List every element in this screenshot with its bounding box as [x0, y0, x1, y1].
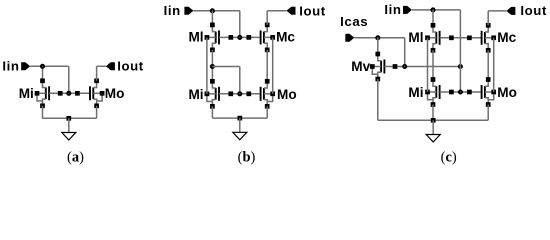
- svg-text:(a): (a): [67, 150, 84, 166]
- wire Icas down to Mv gate (c): [404, 38, 406, 67]
- wire Iout top (b): [267, 10, 286, 12]
- input flag Icas (c): [345, 34, 354, 42]
- svg-text:Mo: Mo: [497, 85, 517, 100]
- wire Mi source (a): [42, 106, 44, 119]
- wire Iin top (b): [193, 10, 239, 12]
- wire Iin to bottom gates (c): [459, 10, 461, 92]
- wire bulk tie Ml-Mi (b): [206, 37, 208, 93]
- input flag Iin (b): [184, 7, 193, 15]
- output flag Iout (a): [106, 62, 115, 70]
- ground (a): [62, 118, 76, 140]
- svg-text:Mo: Mo: [105, 86, 125, 101]
- wire cascode node to bottom gates (b): [212, 66, 239, 68]
- wire Mv gate row (c): [384, 66, 460, 68]
- junction Icas/Mv drain (c): [376, 36, 379, 39]
- input flag Iin (c): [403, 6, 412, 14]
- transistor Mo (a): [90, 78, 104, 108]
- transistor Mi (b): [205, 79, 219, 109]
- wire ground rail (a): [43, 117, 97, 119]
- wire Mi source (b): [211, 106, 213, 118]
- gate terminal Mo (b): [246, 91, 251, 96]
- gate terminal Mo (a): [75, 91, 80, 96]
- junction ground rail (b): [237, 116, 242, 121]
- wire Mi source (c): [432, 105, 434, 121]
- wire top gate row (b): [219, 36, 261, 38]
- junction Iin/Ml drain (c): [431, 8, 434, 11]
- wire Ml source to Mi drain (c): [432, 50, 434, 79]
- wire Mc source to Mo drain (b): [266, 50, 268, 81]
- junction bottom gate node (c): [459, 90, 462, 93]
- junction Mv gate to Iin column (c): [459, 65, 462, 68]
- wire Mc drain (c): [487, 11, 489, 25]
- svg-text:Iin: Iin: [2, 59, 19, 74]
- wire bottom gate row (b): [219, 93, 261, 95]
- junction Iin/Ml drain (b): [211, 9, 214, 12]
- wire Ml drain (b): [211, 11, 213, 25]
- svg-text:Iin: Iin: [384, 2, 401, 17]
- junction gate node (a): [67, 92, 70, 95]
- svg-text:Mi: Mi: [188, 87, 203, 102]
- svg-text:Iout: Iout: [299, 3, 326, 18]
- ground (c): [426, 120, 440, 142]
- transistor Mo (c): [482, 77, 496, 107]
- wire Ml source to Mi drain (b): [211, 50, 213, 81]
- wire Mo source (a): [96, 106, 98, 119]
- gate terminal Mc (b): [246, 35, 251, 40]
- wire gate row (a): [49, 92, 90, 94]
- svg-text:Mc: Mc: [276, 30, 295, 45]
- input flag Iin (a): [21, 62, 30, 70]
- wire diode connection (a): [68, 66, 70, 93]
- wire ground rail (c): [378, 119, 488, 121]
- wire bulk tie Mc-Mo (c): [493, 38, 495, 92]
- transistor Ml (b): [205, 23, 219, 53]
- junction top gate node (b): [238, 36, 241, 39]
- svg-text:Icas: Icas: [340, 14, 368, 29]
- gate terminal Mi (c): [449, 90, 454, 95]
- wire Mo source (b): [266, 106, 268, 118]
- gate terminal Mc (c): [467, 35, 472, 40]
- wire Iout top (c): [488, 10, 506, 12]
- junction node Iin/Mi drain (a): [41, 65, 44, 68]
- gate terminal Ml (c): [449, 35, 454, 40]
- transistor Mo (b): [261, 79, 275, 109]
- junction bottom gate node (b): [238, 92, 241, 95]
- svg-text:Mc: Mc: [497, 30, 516, 45]
- junction cascode node (b): [211, 65, 214, 68]
- wire bulk tie Ml-Mi (c): [427, 38, 429, 92]
- wire down to bottom gate row (b): [239, 67, 241, 94]
- svg-text:Mv: Mv: [351, 59, 370, 74]
- wire Mi drain (a): [42, 66, 44, 81]
- gate terminal Mv (c): [393, 64, 398, 69]
- transistor Mv (c): [370, 52, 384, 82]
- svg-text:Ml: Ml: [408, 30, 423, 45]
- wire Mc source to Mo drain (c): [487, 50, 489, 79]
- wire Mo source (c): [487, 105, 489, 121]
- wire Ml drain (c): [432, 10, 434, 25]
- svg-text:(b): (b): [238, 150, 256, 166]
- svg-text:(c): (c): [441, 150, 457, 166]
- gate terminal Mi (b): [228, 91, 233, 96]
- wire bulk tie Mc-Mo (b): [272, 37, 274, 93]
- transistor Mc (c): [482, 23, 496, 53]
- gate terminal Mo (c): [467, 90, 472, 95]
- junction Mv gate/Icas (c): [403, 65, 406, 68]
- svg-text:Ml: Ml: [188, 30, 203, 45]
- wire Iout top (a): [97, 65, 106, 67]
- svg-text:Iout: Iout: [520, 3, 547, 18]
- svg-text:Mi: Mi: [19, 86, 34, 101]
- transistor Mc (b): [261, 23, 275, 53]
- junction ground rail (a): [66, 116, 71, 121]
- wire Iin top (c): [412, 9, 460, 11]
- svg-text:Mi: Mi: [408, 85, 423, 100]
- wire Mv drain (c): [377, 38, 379, 54]
- wire top gate row (c): [440, 37, 482, 39]
- gate terminal Mi (a): [58, 91, 63, 96]
- gate terminal Ml (b): [228, 35, 233, 40]
- output flag Iout (b): [287, 7, 296, 15]
- svg-text:Iin: Iin: [164, 3, 181, 18]
- wire ground rail (b): [212, 117, 267, 119]
- wire Icas (c): [354, 37, 404, 39]
- svg-text:Mo: Mo: [277, 87, 297, 102]
- wire Mc drain (b): [266, 11, 268, 25]
- wire Mo drain (a): [96, 66, 98, 81]
- wire Iin top (a): [30, 65, 69, 67]
- output flag Iout (c): [506, 7, 515, 15]
- transistor Ml (c): [425, 23, 439, 53]
- transistor Mi (c): [425, 77, 439, 107]
- wire bottom gate row (c): [440, 91, 482, 93]
- svg-text:Iout: Iout: [117, 59, 144, 74]
- wire Mv source (c): [377, 79, 379, 120]
- wire Ml diode connection (b): [239, 11, 241, 38]
- junction ground rail (c): [431, 118, 436, 123]
- transistor Mi (a): [35, 78, 49, 108]
- ground (b): [233, 118, 247, 140]
